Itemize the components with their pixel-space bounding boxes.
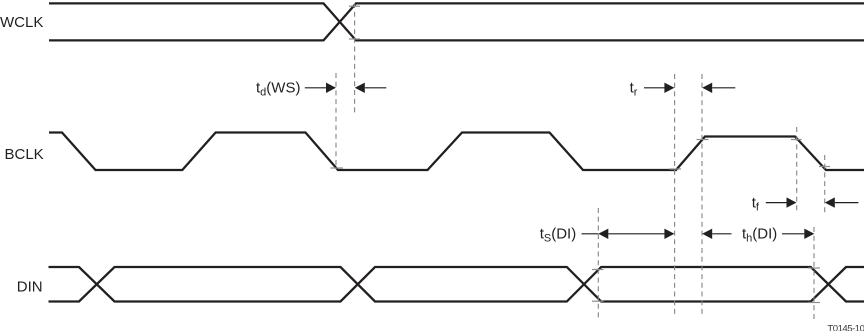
dashed line at BCLK rise end x=702	[701, 74, 703, 316]
tick marks at measurement points	[331, 6, 831, 302]
dashed line at DIN transition x=598.3	[597, 208, 599, 318]
dashed line at BCLK rise start x=674.6	[674, 74, 676, 316]
tr right arrow	[702, 83, 735, 93]
tS(DI) double arrow	[598, 229, 674, 239]
dashed line at BCLK fall start x=796.7	[796, 127, 798, 213]
th(DI) right arrow	[782, 229, 814, 239]
tf left arrow	[766, 197, 797, 207]
th(DI) left arrow	[702, 229, 731, 239]
tS(DI) leader line	[582, 233, 599, 235]
svg-text:T0145-10: T0145-10	[827, 324, 864, 331]
dashed line at WCLK crossover end x=354.6	[354, 3, 356, 115]
dashed line at BCLK fall end x=824.7	[824, 155, 826, 213]
tr left arrow	[644, 83, 674, 93]
dashed line at DIN hold transition x=814	[813, 227, 815, 320]
svg-text:DIN: DIN	[17, 278, 43, 295]
tf right arrow	[825, 197, 859, 207]
WCLK bus waveform	[49, 3, 864, 40]
td(WS) right arrow	[355, 83, 387, 93]
td(WS) left arrow	[305, 83, 336, 93]
svg-text:WCLK: WCLK	[0, 14, 43, 31]
DIN data bus waveform	[49, 267, 864, 302]
dashed line at BCLK fall corner x=336	[335, 73, 337, 169]
BCLK clock waveform	[49, 133, 864, 171]
svg-text:BCLK: BCLK	[5, 146, 44, 163]
